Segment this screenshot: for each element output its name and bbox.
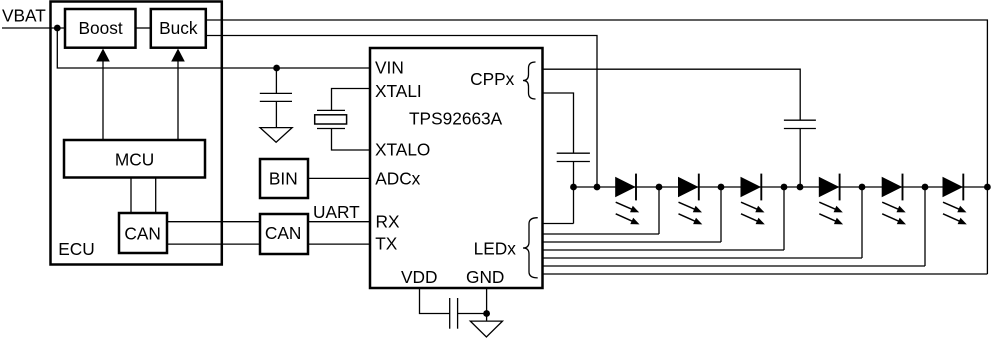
svg-text:VBAT: VBAT — [2, 6, 46, 26]
svg-text:CAN: CAN — [124, 224, 161, 244]
svg-text:MCU: MCU — [115, 149, 154, 169]
svg-text:BIN: BIN — [269, 168, 298, 188]
svg-text:CPPx: CPPx — [470, 69, 515, 89]
svg-text:ECU: ECU — [58, 239, 94, 259]
svg-text:UART: UART — [313, 202, 360, 222]
svg-text:Buck: Buck — [159, 18, 198, 38]
svg-text:TPS92663A: TPS92663A — [409, 109, 503, 129]
svg-text:VIN: VIN — [375, 57, 404, 77]
svg-text:CAN: CAN — [265, 223, 302, 243]
svg-text:VDD: VDD — [401, 267, 438, 287]
svg-text:RX: RX — [376, 211, 400, 231]
svg-text:TX: TX — [375, 234, 398, 254]
svg-text:XTALO: XTALO — [375, 140, 430, 160]
svg-text:GND: GND — [466, 267, 504, 287]
svg-text:LEDx: LEDx — [474, 239, 517, 259]
svg-text:ADCx: ADCx — [375, 168, 420, 188]
svg-text:Boost: Boost — [78, 18, 122, 38]
svg-text:XTALI: XTALI — [375, 81, 422, 101]
